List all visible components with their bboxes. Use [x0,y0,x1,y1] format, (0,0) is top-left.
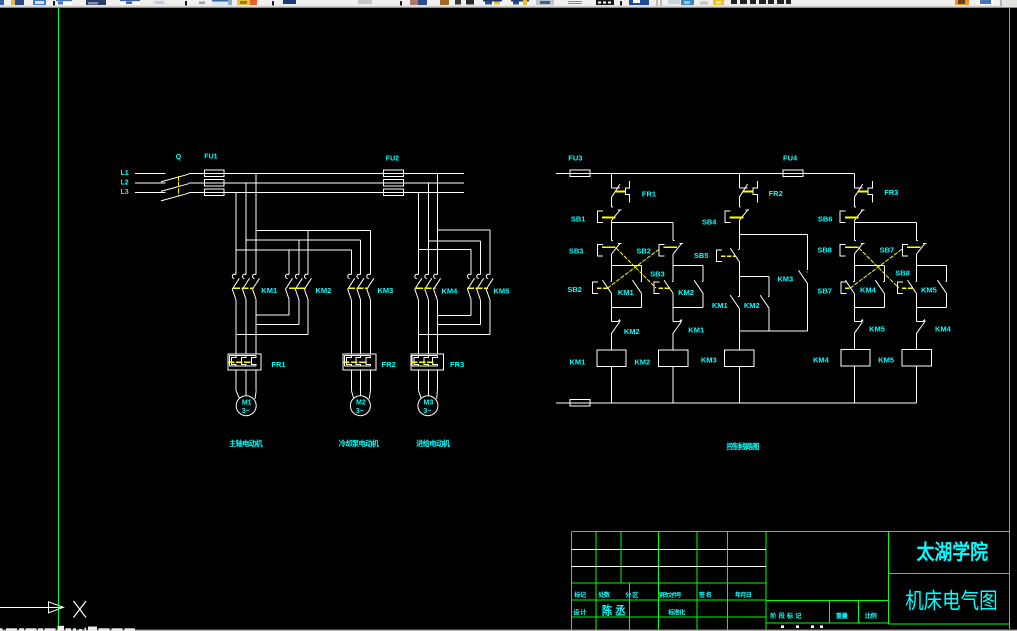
fuse FU1 element 2 [204,180,224,186]
svg-text:太湖学院: 太湖学院 [917,540,989,564]
svg-text:KM1: KM1 [261,286,277,295]
wire L3 incoming lead [135,191,166,193]
svg-text:冷却泵电动机: 冷却泵电动机 [339,439,380,448]
wire [672,307,674,321]
wire [672,293,674,307]
wire tap L2 to KM1 pole2 [245,183,247,275]
KM5 linkage (yellow) [467,287,488,289]
KM1 linkage (yellow) [233,287,253,289]
wire rejoin [854,306,884,308]
svg-text:FR1: FR1 [271,360,285,369]
switch Q blade 1 [161,174,189,182]
wire drop to KM5 pole3 [489,230,491,275]
svg-text:SB2: SB2 [567,285,582,294]
coil KM4 [841,350,870,367]
KM2 linkage (yellow) [289,287,306,289]
title block middle divider [858,600,860,623]
bus L3 [189,191,464,193]
UCS X label [74,601,87,618]
svg-text:SB8: SB8 [817,245,832,254]
wire tap L1 to KM1 pole3 [255,173,257,274]
wire drop to KM3 pole2 [360,240,362,275]
wire [738,331,740,350]
title block middle row line [766,599,889,601]
UCS X axis line [0,606,62,608]
contactor KM1 pole at x=236.0 [232,274,236,278]
svg-text:M3: M3 [424,399,434,406]
wire L1 incoming lead [135,172,166,174]
start button SB7 (NO) [853,281,854,283]
title block top line [571,531,1009,533]
wire [916,254,918,266]
svg-text:更改文件号: 更改文件号 [659,591,682,599]
title block left edge [570,532,572,630]
wire [916,293,918,307]
svg-text:KM4: KM4 [442,286,459,295]
svg-text:FR3: FR3 [450,360,464,369]
button SB3 NC contact [612,240,613,242]
svg-text:KM1: KM1 [712,301,728,310]
svg-text:标记: 标记 [573,591,587,599]
wire [641,293,643,307]
wire to bottom rail [738,367,740,403]
wire drop to KM5 pole2 [479,241,481,275]
wire split [917,265,947,267]
wire rejoin [739,330,807,332]
wire [946,266,948,282]
wire [946,293,948,307]
wire drop to KM2 pole1 [288,250,290,275]
title block row line [571,616,766,618]
wire [738,197,740,207]
wire to bottom rail [672,366,674,403]
svg-text:SB7: SB7 [880,245,895,254]
contactor KM4 pole at x=428.5 [425,274,429,278]
title block column line lower [629,583,631,629]
title block column line lower [657,583,659,629]
fuse FU2 element 2 [383,180,403,186]
wire drop to KM5 pole1 [470,250,472,275]
motor M3 [418,370,420,391]
wire crossover KM1p1-KM2p3 [237,334,308,336]
title block column line [595,532,597,584]
svg-text:标准化: 标准化 [667,608,686,616]
wire drop to KM3 pole1 [350,250,352,275]
wire [672,266,674,282]
svg-text:KM3: KM3 [701,355,717,364]
svg-text:FU4: FU4 [783,153,798,162]
svg-text:KM3: KM3 [777,275,793,284]
wire rejoin [612,306,642,308]
wire [672,333,674,350]
title block white row line 1 [571,549,766,551]
fuse FU5 on bottom rail [570,400,590,406]
svg-text:SB4: SB4 [702,217,717,226]
wire [611,307,613,321]
mechanical link SB8 (yellow) [859,248,899,288]
title block middle bottom line [766,622,889,624]
wire [853,220,855,240]
stop button SB6 (NC) [854,206,855,208]
svg-text:KM2: KM2 [316,286,332,295]
wire [853,333,855,350]
wire to bottom rail [611,366,613,403]
svg-text:比例: 比例 [865,612,877,620]
wire [702,266,704,282]
wire [738,261,740,276]
wire tee to KM3 aux [739,233,807,235]
fuse FU2 element 3 [383,189,403,195]
contactor KM5 pole at x=489.9 [486,274,490,278]
status bar text fragments bottom left [0,628,3,631]
wire to bottom rail [853,366,855,403]
FR1 NC contact [611,173,613,188]
svg-text:FR2: FR2 [382,360,396,369]
svg-text:Q: Q [176,154,182,161]
svg-text:机床电气图: 机床电气图 [905,589,998,614]
FR2 NC contact [738,173,740,188]
svg-text:陈 丞: 陈 丞 [602,603,626,617]
svg-text:M1: M1 [242,399,252,406]
svg-text:KM5: KM5 [921,285,937,294]
svg-text:KM2: KM2 [624,327,640,336]
svg-text:KM3: KM3 [378,286,394,295]
wire [768,308,770,331]
wire [853,254,855,266]
wire crossover KM4p3-KM5p1 [437,315,471,317]
svg-text:KM1: KM1 [688,326,704,335]
contactor KM4 pole at x=418.5 [415,274,419,278]
svg-text:SB6: SB6 [818,214,833,223]
wire feed A (L1) to KM2/KM3 [256,230,370,232]
wire [883,293,885,307]
UCS arrow head [49,602,64,613]
wire [611,254,613,266]
wire tap L3 to KM1 pole1 [235,192,237,274]
sheet frame left edge [58,8,60,628]
svg-text:FR1: FR1 [642,190,656,199]
motor M1 [235,370,237,391]
svg-text:KM5: KM5 [869,324,885,333]
wire to bottom rail [916,366,918,403]
wire [916,333,918,350]
title block column line [765,532,767,630]
button SB8 NC contact [854,240,855,242]
wire [768,276,770,296]
wire [738,220,740,249]
wire [853,173,855,188]
wire [611,333,613,350]
wire [611,293,613,307]
wire feed to KM5 pole2 [429,240,481,242]
wire split [739,275,769,277]
control bottom rail [556,402,917,404]
svg-text:3~: 3~ [356,408,364,415]
svg-text:KM2: KM2 [678,288,694,297]
svg-text:KM2: KM2 [744,301,760,310]
KM5 holding aux contact (NO) [945,281,946,283]
wire tee to branch 2 [612,221,674,223]
sheet frame right edge [1009,8,1011,629]
contactor KM2 pole at x=308.1 [304,274,308,278]
svg-text:签 名: 签 名 [698,591,712,599]
svg-text:KM4: KM4 [935,324,952,333]
wire [807,284,809,331]
contactor KM3 pole at x=351.4 [348,274,352,278]
switch Q linkage (yellow) [178,176,180,197]
svg-text:M2: M2 [356,399,366,406]
start button SB8' (NO) [915,281,916,283]
wire [672,254,674,266]
svg-text:L1: L1 [121,170,129,177]
wire crossover KM1p3-KM2p1 [256,314,289,316]
start button SB5 (NO) [738,249,739,251]
svg-text:FR2: FR2 [769,189,783,198]
contactor KM3 pole at x=370.5 [367,274,371,278]
title block row line [571,599,766,601]
wire [738,308,740,331]
wire split [612,265,642,267]
svg-text:KM1: KM1 [618,288,634,297]
wire tee to branch 5 [854,221,916,223]
KM1 holding aux contact (NO) [640,281,641,283]
KM4 holding aux contact (NO) [883,281,884,283]
stop button SB4 (NC) [739,206,740,208]
wire crossover KM4p3-KM5p2 [437,323,480,325]
wire [672,222,674,240]
svg-text:L2: L2 [121,180,129,187]
svg-text:FR3: FR3 [884,188,898,197]
contactor KM2 pole at x=299.0 [295,274,299,278]
contactor KM3 pole at x=360.6 [357,274,361,278]
title block row line [571,582,766,584]
motor M2 [350,370,352,391]
contactor KM2 pole at x=289.2 [285,274,289,278]
svg-text:年月日: 年月日 [735,591,752,599]
svg-text:KM4: KM4 [860,285,877,294]
coil KM3 [725,350,754,367]
KM4 linkage (yellow) [416,287,436,289]
wire [611,266,613,282]
fuse FU4 [783,170,803,176]
stop button SB1 (NC) [612,206,613,208]
contactor KM1 pole at x=256.2 [252,274,256,278]
wire tap L1 to KM4 pole3 [436,173,438,274]
button SB7' NC contact [917,240,918,242]
mechanical link SB7 (yellow) [851,249,902,288]
svg-text:KM5: KM5 [878,355,894,364]
svg-text:SB7: SB7 [817,286,832,295]
thermal relay FR3 [411,354,444,370]
toolbar strip [0,0,1017,8]
mechanical link SB2 (yellow) [608,249,659,288]
mechanical link SB3 (yellow) [616,248,656,288]
wire drop to KM3 pole3 [370,231,372,275]
title block middle divider [829,600,831,623]
wire rejoin [673,306,703,308]
wire rejoin [917,306,947,308]
wire drop to KM2 pole2 [298,240,300,275]
fuse FU1 element 1 [204,170,224,176]
start button SB2 (NO) [610,281,611,283]
thermal relay FR1 [228,354,261,370]
fuse FU2 element 1 [383,170,403,176]
svg-text:SB3: SB3 [650,270,665,279]
title block column line lower [595,583,597,629]
svg-text:控制线路图: 控制线路图 [727,442,760,451]
coil KM5 [902,350,931,367]
svg-text:KM2: KM2 [634,358,650,367]
wire split [673,265,703,267]
switch Q blade 3 [161,193,189,201]
contactor KM4 pole at x=437.3 [434,274,438,278]
coil KM1 [597,350,626,367]
svg-text:FU3: FU3 [568,153,582,162]
start button SB3' (NO) [672,281,673,283]
wire KM3 aux branch [807,234,809,269]
wire [883,266,885,282]
wire [738,276,740,296]
wire L2 incoming lead [135,182,166,184]
title block white row line 2 [571,566,766,568]
svg-text:SB2: SB2 [636,246,651,255]
title block divider school section [888,532,890,625]
KM1 aux contact (NO) [738,296,739,298]
wire [611,220,613,240]
KM2 NC interlock contact [612,320,620,322]
wire split [854,265,884,267]
wire feed C (L3) to KM2/KM3 [236,249,351,251]
svg-text:主轴电动机: 主轴电动机 [229,439,263,448]
svg-text:KM1: KM1 [570,358,586,367]
svg-text:FU1: FU1 [204,154,217,161]
fuse FU3 [570,170,590,176]
wire feed to KM5 pole3 [437,229,490,231]
wire [702,293,704,307]
svg-text:阶 段 标 记: 阶 段 标 记 [770,612,802,620]
KM5 NC interlock contact [854,320,862,322]
wire [641,266,643,282]
wire [853,293,855,307]
svg-text:SB8: SB8 [895,269,910,278]
title block column line [726,532,728,584]
wire crossover KM4p1-KM5p3 [419,334,490,336]
control top rail [556,172,854,174]
FR3 NC contact [853,173,855,188]
wire feed B (L2) to KM2/KM3 [246,239,360,241]
title block column line lower [726,583,728,629]
bottom gray strip [0,630,1017,631]
title block column line [620,532,622,584]
svg-text:进给电动机: 进给电动机 [416,439,450,448]
wire [611,197,613,207]
svg-text:FU2: FU2 [386,155,399,162]
wire [853,266,855,282]
svg-text:SB3: SB3 [569,246,584,255]
svg-text:KM4: KM4 [813,355,830,364]
svg-text:重量: 重量 [836,612,849,620]
title block column line [657,532,659,584]
wire crossover KM1p3-KM2p2 [256,323,299,325]
title block column line [696,532,698,584]
title block divider under school name [889,573,1010,575]
wire drop to KM2 pole3 [307,231,309,275]
KM3 linkage (yellow) [348,287,368,289]
wire [916,222,918,240]
svg-text:处数: 处数 [597,591,611,599]
KM1 NC interlock contact [673,320,681,322]
switch Q blade 2 [161,184,189,192]
fuse FU1 element 3 [204,189,224,195]
contactor KM5 pole at x=471.2 [467,274,471,278]
wire tap L3 to KM4 pole1 [418,192,420,274]
wire [853,307,855,321]
title block bottom line right [889,623,1010,625]
coil KM2 [659,350,688,367]
contactor KM5 pole at x=480.4 [477,274,481,278]
KM4 NC interlock contact [917,320,925,322]
wire [916,266,918,282]
bus L1 [189,172,464,174]
svg-text:SB5: SB5 [694,251,709,260]
svg-text:SB1: SB1 [571,214,586,223]
title block column line lower [696,583,698,629]
svg-text:3~: 3~ [242,408,250,415]
svg-text:分 区: 分 区 [625,591,639,599]
contactor KM1 pole at x=246.2 [242,274,246,278]
KM2 holding aux contact (NO) [702,281,703,283]
svg-text:3~: 3~ [423,408,431,415]
wire feed to KM5 pole1 [419,249,472,251]
KM3 holding aux contact (NO) [806,271,807,273]
svg-text:L3: L3 [121,189,129,196]
wire tap L2 to KM4 pole2 [428,183,430,275]
bus L2 [189,182,464,184]
wire [853,197,855,207]
svg-text:KM5: KM5 [494,286,510,295]
thermal relay FR2 [343,354,376,370]
bottom cut-off text fragments [781,625,784,628]
wire [916,307,918,321]
KM2 aux contact (NO) [768,296,769,298]
button SB2' NC contact [673,240,674,242]
svg-text:设 计: 设 计 [573,608,587,616]
